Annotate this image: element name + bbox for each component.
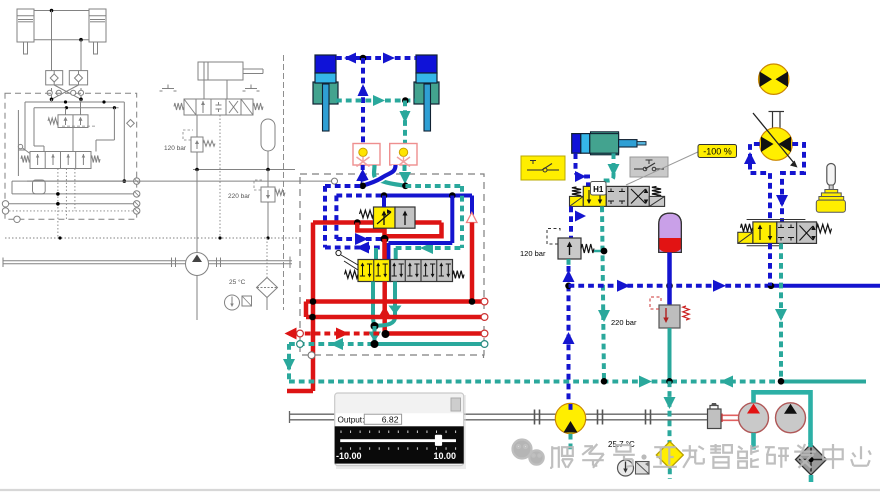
left dashed subsystem box <box>5 93 137 219</box>
filter (middle) <box>257 278 278 298</box>
watermark char 中 <box>823 449 843 459</box>
wire: teal pilot from spring to teal line <box>594 250 604 253</box>
accumulator (middle) <box>261 119 275 151</box>
wire: blue dashed y239 w/ right arrow <box>336 237 382 241</box>
watermark char 务 <box>584 445 593 447</box>
port circles on borders <box>297 330 304 337</box>
wire: blue solid from accumulator to R2 <box>667 252 672 305</box>
watermark char 能 <box>738 446 742 449</box>
dotted rail y238 <box>5 237 298 239</box>
left box interior wiring <box>51 99 53 102</box>
watermark char 发 <box>797 445 801 448</box>
svg-text:Output:: Output: <box>338 416 365 425</box>
teal corner down to bus <box>287 344 291 382</box>
wire: blue stub + up arrow into T1 <box>361 165 365 170</box>
hydraulic motor HM1 <box>739 403 769 433</box>
wire: blue solid vertical x452.3 <box>450 196 454 244</box>
wire: blue top link between cylinder caps <box>336 56 416 60</box>
outer loop verticals <box>24 102 26 150</box>
wire: red V1 bottom port <box>382 228 387 231</box>
wall connector circles <box>47 90 52 95</box>
watermark char 龙 <box>682 449 697 451</box>
wire: red main horizontal y222.5 <box>313 220 442 225</box>
electric switch (yellow active) <box>521 156 565 180</box>
electric switch (gray) <box>630 157 668 177</box>
flow arrow down <box>400 111 411 123</box>
wire: teal below H1 down to bus <box>602 206 604 381</box>
svg-text:10.00: 10.00 <box>433 451 456 461</box>
cylinder B <box>89 9 106 42</box>
wire: cylinder top link <box>34 10 89 12</box>
pump (middle circuit) <box>196 170 198 253</box>
crossing wires to box inputs <box>54 85 81 99</box>
wire: blue bus y286 <box>569 284 772 288</box>
drive shaft right <box>586 413 707 415</box>
wire: blue corner into x472 <box>470 196 474 216</box>
wire: blue drop to throttle T1 <box>361 58 365 144</box>
wire: blue below H1 to relief R1 <box>569 206 573 238</box>
wire: teal dashed y248 w/ left arrow <box>396 246 462 250</box>
wire: red vertical x472 <box>470 223 475 302</box>
rail wall circles right <box>134 178 140 184</box>
wire: red down to V2 <box>382 239 387 260</box>
wire: big red left vertical <box>311 223 316 392</box>
flow arrow up on blue drop <box>358 84 369 96</box>
teal pipe loop over motors <box>754 392 811 444</box>
check valve box 2 <box>69 71 87 85</box>
wire: blue V3 bottom to bus <box>768 243 772 285</box>
svg-text:-100 %: -100 % <box>703 147 732 157</box>
wire: red bottom L end <box>287 389 313 394</box>
wire: red inner jog <box>357 223 384 239</box>
wire: red right U <box>385 223 442 237</box>
pilot dotted verticals <box>57 169 59 239</box>
callout line to -100% label <box>626 151 700 185</box>
120 bar relief (middle) <box>191 137 203 152</box>
watermark char 心 <box>852 453 855 457</box>
drive shaft left <box>290 413 556 415</box>
svg-text:25 °C: 25 °C <box>229 278 246 286</box>
red rail 2 y317 <box>306 315 484 320</box>
supply rail y169.5 <box>193 169 295 171</box>
wire: blue dashed vertical x325 <box>323 186 327 248</box>
accumulator (colored) <box>659 213 682 252</box>
wire: blue loop around motor <box>750 144 770 222</box>
relief valve R2 220 bar <box>611 297 689 328</box>
relief valve R1 120 bar <box>520 229 594 260</box>
left wall circles <box>2 201 8 207</box>
red rail 1 y301.5 <box>306 299 484 304</box>
wire: teal below R2 to bus <box>668 328 672 381</box>
wechat icon <box>513 440 544 465</box>
check valve box 1 <box>46 71 63 85</box>
wire: blue dashed entry y186 <box>325 184 363 188</box>
wire: blue dashed y247.5 w/ left arrow <box>325 246 390 250</box>
wire: blue solid y195.5 <box>384 194 472 198</box>
watermark char 号 <box>616 445 630 452</box>
throttle check valve T1 (highlighted) <box>353 144 380 167</box>
wire: teal from T1 curving right <box>374 165 405 186</box>
wire: teal stub under pump <box>569 434 573 453</box>
slider ticks and track <box>340 431 342 434</box>
cylinder A (top-left) <box>17 9 34 42</box>
flow arrow right <box>383 53 395 64</box>
valve v2 row <box>21 156 30 163</box>
rails <box>12 180 137 182</box>
wire: down feeds <box>51 11 53 71</box>
220 bar relief (middle) <box>267 170 269 188</box>
throttle check valve T2 (highlighted) <box>390 144 417 167</box>
wire: blue dashed y195.5 <box>336 194 384 198</box>
flow arrow right teal <box>373 95 385 106</box>
svg-text:6.82: 6.82 <box>382 415 399 425</box>
coupling sensor box <box>708 409 722 429</box>
wire: teal from C3 rod port to H1 <box>601 153 614 186</box>
flow arrow left <box>344 53 356 64</box>
bottom separator line <box>0 489 880 491</box>
thermometer T2 <box>618 460 634 476</box>
wires cylinder to valve <box>203 80 205 99</box>
exhaust symbols <box>162 88 174 90</box>
wire: teal stub + down arrow into junction <box>403 165 407 171</box>
joystick <box>816 164 845 213</box>
watermark char 研 <box>765 446 775 448</box>
cylinder C2 (right, vertical) <box>414 82 439 104</box>
bottom-right corner stub <box>483 355 485 358</box>
wire: blue into V1 top <box>382 196 386 208</box>
wire: blue stub into valve V2 <box>386 243 390 260</box>
watermark char · <box>641 454 646 459</box>
cylinder (middle circuit) <box>198 62 243 80</box>
diamond on right border <box>127 120 135 128</box>
hydraulic motor HM2 <box>776 403 806 433</box>
wire: teal stub from y247.5 to valve V2 <box>374 248 378 260</box>
watermark char 智 <box>710 445 721 447</box>
4/3 valve (middle circuit) <box>174 103 184 110</box>
watermark char 亚 <box>654 446 676 448</box>
valve to relief wire <box>196 115 198 137</box>
drain dash-dot vertical <box>283 55 285 310</box>
wire: teal dashed vertical x462 <box>460 186 464 248</box>
red link to motor <box>722 414 739 416</box>
wire: below R1 teal then blue down to pump <box>567 259 571 266</box>
drive shaft double line <box>3 260 186 262</box>
wire: teal V3 bottom to teal bus <box>779 243 783 381</box>
filter F1 (yellow diamond) <box>656 442 683 469</box>
red jog left <box>304 302 309 318</box>
wire: teal from bus down to filter F1 <box>668 381 672 443</box>
rotation indicator (yellow circle) <box>759 64 789 94</box>
wire: blue dashed vertical x336.4 <box>334 196 338 240</box>
wire: teal drop to throttle T2 <box>403 101 407 144</box>
wire: blue solid y243 <box>388 241 452 245</box>
svg-text:220 bar: 220 bar <box>611 318 637 327</box>
svg-text:120 bar: 120 bar <box>164 145 187 152</box>
svg-text:-10.00: -10.00 <box>336 451 362 461</box>
wires: V2 bottom ports <box>371 282 375 319</box>
teal rail 4 y344 <box>289 342 375 346</box>
supply line to central block <box>27 180 333 182</box>
watermark char 服 <box>551 446 553 468</box>
tank capsule <box>33 180 46 194</box>
wire: teal bottom link <box>336 99 416 103</box>
red rail 3 y333.5 (dashed then solid) <box>285 328 297 340</box>
cylinder C1 (left, vertical) <box>313 82 338 104</box>
cylinder C3 (horizontal) <box>591 132 619 155</box>
pressure arrow (white/pink) on x472 <box>467 213 478 223</box>
svg-text:H1: H1 <box>593 185 604 194</box>
wire: teal dashed y186 to right <box>405 184 462 188</box>
-100% label <box>698 145 737 158</box>
wire: blue diagonal to T2 (over teal) <box>363 165 396 186</box>
pump P1 <box>555 403 585 433</box>
svg-text:220 bar: 220 bar <box>228 193 251 200</box>
svg-text:120 bar: 120 bar <box>520 249 546 258</box>
proportional valve v1 <box>48 118 58 124</box>
dotted pilot from valve <box>219 115 221 238</box>
variable displacement motor M1 <box>753 112 798 168</box>
wire: cylinder mid link <box>34 39 89 41</box>
wire: blue from C3 cap port to H1 <box>576 153 589 186</box>
filter F2 (gray diamond) <box>796 444 827 475</box>
